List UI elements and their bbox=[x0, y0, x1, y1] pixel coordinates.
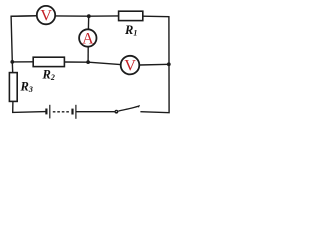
wire top-left horizontal bbox=[11, 15, 37, 17]
junction dot left (node on left rail) bbox=[10, 60, 14, 64]
wire junction to R1 bbox=[89, 15, 119, 17]
svg-text:V: V bbox=[124, 58, 136, 75]
wire row2 right (junction to V2) bbox=[89, 62, 121, 64]
wire right rail (R1 to corner, down, to switch stub) bbox=[140, 16, 169, 113]
svg-text:R3: R3 bbox=[20, 79, 33, 94]
resistor R3 (box) bbox=[9, 73, 17, 102]
switch lever bbox=[118, 106, 139, 111]
battery cell 2 negative plate bbox=[71, 109, 73, 115]
battery cell 1 negative plate bbox=[45, 109, 47, 115]
svg-text:A: A bbox=[82, 30, 94, 47]
wire ammeter branch upper bbox=[87, 16, 89, 29]
junction dot under ammeter bbox=[86, 60, 90, 64]
svg-text:R2: R2 bbox=[42, 67, 55, 82]
wire left rail to R3 bbox=[11, 62, 13, 73]
wire top middle (V1 to junction) bbox=[56, 15, 89, 17]
junction dot top (node over ammeter) bbox=[87, 14, 91, 18]
wire row2 middle (R2 to junction) bbox=[65, 61, 89, 63]
wire left rail upper (corner to left node) bbox=[11, 16, 36, 62]
resistor R2 (box) bbox=[33, 57, 64, 66]
voltmeter V (right, across R1) bbox=[121, 56, 140, 75]
wire row2 left (left node to R2) bbox=[12, 61, 33, 63]
wire V2 to right node bbox=[140, 63, 169, 66]
switch pivot bbox=[115, 110, 119, 114]
wire battery to switch bbox=[76, 111, 115, 113]
battery cell 2 positive plate bbox=[75, 105, 77, 119]
svg-text:R1: R1 bbox=[124, 23, 137, 38]
junction dot right (node on right rail) bbox=[167, 62, 171, 66]
wire R3 to bottom corner to battery bbox=[13, 102, 46, 113]
wire ammeter branch lower bbox=[87, 47, 89, 62]
voltmeter V (top, across R2 branch) bbox=[37, 6, 55, 25]
ammeter A bbox=[79, 29, 96, 47]
resistor R1 (box) bbox=[119, 11, 143, 20]
svg-text:V: V bbox=[40, 8, 52, 25]
battery cell 1 positive plate bbox=[49, 105, 51, 119]
battery dashed link bbox=[53, 111, 70, 113]
